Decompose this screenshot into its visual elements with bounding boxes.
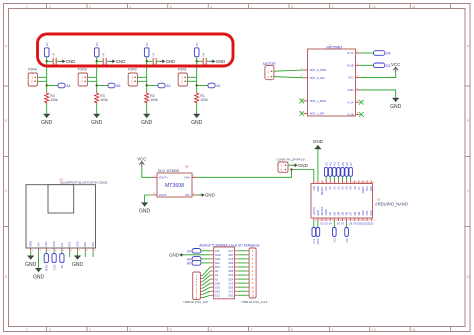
wire U3 to net label TXD (53, 251, 55, 253)
svg-text:A-1A: A-1A (348, 100, 354, 104)
svg-text:?: ? (152, 53, 155, 58)
ground at U4 VOUT- (139, 203, 151, 215)
svg-text:A7: A7 (349, 162, 353, 166)
svg-text:GND: GND (205, 193, 215, 198)
svg-text:MOT_R_PWM: MOT_R_PWM (310, 69, 326, 72)
resistor R1 100k (195, 92, 199, 104)
svg-text:VCC: VCC (137, 157, 146, 162)
ground at U1 (390, 98, 402, 110)
svg-text:16: 16 (372, 220, 374, 222)
wire 3V flag to node block 2 (96, 57, 98, 62)
svg-text:D13: D13 (369, 224, 374, 226)
wire capacitor to GND block 4 (207, 60, 211, 62)
wire node to capacitor C2 (97, 60, 103, 62)
svg-text:GND: GND (139, 209, 151, 215)
svg-text:D12: D12 (369, 210, 373, 215)
wire F2R1 pin 2 (187, 80, 196, 82)
ground flag GND at U4 VIN- (200, 193, 215, 198)
net label A6 (108, 83, 121, 88)
svg-text:1: 1 (315, 182, 316, 184)
svg-text:1: 1 (26, 328, 28, 332)
svg-text:GND: GND (313, 139, 324, 144)
wire to net label A3 (147, 85, 158, 87)
svg-text:3V3: 3V3 (365, 186, 369, 191)
svg-text:HDR-M-2.54_1x12: HDR-M-2.54_1x12 (242, 300, 268, 304)
wire J2 pin 4 to U5 (202, 279, 210, 285)
net label RXD below U3 (44, 254, 48, 271)
svg-text:3V: 3V (187, 249, 192, 253)
net flag 3V block 3 (144, 43, 149, 57)
svg-text:GND: GND (116, 59, 126, 64)
wire node to capacitor C3 (147, 60, 153, 62)
svg-text:D5: D5 (341, 211, 345, 215)
svg-text:D6: D6 (345, 211, 349, 215)
connector J1 CONN-TH_2P-P4.00 (277, 158, 305, 173)
wire U2 to net label RX0 (317, 221, 319, 228)
no-connect U1 left pin 10 (299, 111, 304, 116)
net label 5V below U3 (60, 254, 64, 269)
wire F2R2 pin 2 (137, 80, 146, 82)
svg-text:VCC: VCC (348, 76, 354, 80)
svg-text:SDA: SDA (215, 257, 221, 261)
wire J2 pin 1 to U5 (202, 267, 210, 276)
svg-text:1: 1 (26, 5, 28, 9)
capacitor C1 (C?) (52, 53, 56, 65)
wire U5 to J3 pin 5 (238, 266, 247, 268)
svg-text:4: 4 (130, 328, 132, 332)
svg-text:GND: GND (33, 274, 45, 280)
svg-text:MOD: MOD (29, 241, 33, 247)
svg-text:A1: A1 (332, 186, 336, 190)
net label A3 above U2 (333, 162, 337, 177)
wire junction to resistor R2 (146, 86, 148, 92)
wire to net label A2 (197, 85, 208, 87)
wire to net label A4 (47, 85, 58, 87)
wire MOTOR pin 1 to U1 (274, 70, 304, 71)
net flag 3V block 2 (94, 43, 99, 57)
svg-text:D9: D9 (357, 211, 361, 215)
wire 3V flag to node block 3 (146, 57, 148, 62)
svg-text:GND: GND (216, 59, 226, 64)
net label RX0 below U2 (316, 228, 320, 245)
junction block 3 top (146, 60, 148, 62)
svg-text:+5V: +5V (324, 186, 328, 191)
wire U5 to J3 pin 10 (238, 286, 247, 288)
svg-text:D6: D6 (386, 52, 391, 56)
resistor R3 100k (95, 92, 99, 104)
wire node to capacitor C4 (197, 60, 203, 62)
svg-text:VCC: VCC (391, 62, 400, 67)
wire U5 to J3 pin 9 (238, 282, 247, 284)
svg-text:D11: D11 (365, 210, 369, 215)
svg-text:GND: GND (348, 88, 354, 92)
svg-text:A2: A2 (336, 186, 340, 190)
svg-text:8: 8 (291, 328, 293, 332)
svg-text:A4: A4 (66, 84, 70, 88)
svg-text:3V0: 3V0 (91, 242, 95, 247)
svg-text:R2: R2 (150, 94, 154, 98)
svg-text:SD7: SD7 (228, 253, 234, 257)
svg-text:5: 5 (170, 5, 172, 9)
wire U2 to net label TX1 (313, 221, 315, 228)
motor driver U1 HG7881 (300, 43, 360, 116)
svg-text:A6: A6 (353, 186, 357, 190)
wire A6 flag to U2 (346, 176, 348, 180)
svg-text:GND: GND (166, 59, 176, 64)
svg-text:D2: D2 (328, 211, 332, 215)
svg-text:27: 27 (327, 220, 329, 222)
svg-text:GND: GND (66, 59, 76, 64)
svg-text:U4: U4 (185, 165, 189, 169)
svg-text:RESET: RESET (320, 186, 324, 195)
svg-text:9: 9 (332, 5, 334, 9)
svg-text:3V: 3V (45, 43, 49, 47)
svg-text:23: 23 (344, 220, 346, 222)
wire stub U3 pin 9 (92, 251, 94, 257)
svg-text:13: 13 (364, 182, 366, 184)
svg-text:VIN: VIN (215, 249, 219, 253)
svg-text:100k: 100k (50, 98, 58, 102)
wire A4 flag to U2 (337, 176, 339, 180)
svg-text:SC2: SC2 (228, 289, 234, 293)
svg-text:11: 11 (356, 182, 358, 184)
wire U4 VIN- to ground flag (197, 194, 201, 196)
svg-text:A1: A1 (215, 273, 219, 277)
power flag VCC at U4 MT3608 (137, 157, 146, 167)
svg-text:SC0: SC0 (215, 285, 221, 289)
svg-text:5: 5 (170, 328, 172, 332)
net label A4 (58, 83, 71, 88)
svg-text:19: 19 (360, 220, 362, 222)
wire 3V flag to U5 VIN (201, 250, 210, 252)
svg-text:A4: A4 (345, 186, 349, 190)
wire capacitor to GND block 3 (157, 60, 161, 62)
wire resistor R1 to ground (196, 104, 198, 115)
wire A3 flag to U2 (333, 176, 335, 180)
svg-text:D4: D4 (336, 211, 340, 215)
wire U3 to net label 5V (61, 251, 63, 253)
svg-text:3V: 3V (195, 43, 199, 47)
svg-text:DLQ_MT3608: DLQ_MT3608 (158, 169, 179, 173)
svg-text:F2R4: F2R4 (28, 68, 37, 72)
svg-text:D7: D7 (349, 211, 353, 215)
wire F2R1 pin 1 (187, 76, 196, 78)
svg-text:AREF: AREF (361, 186, 365, 194)
svg-text:SD3: SD3 (228, 285, 234, 289)
wire ground to U5 GND (184, 254, 210, 256)
svg-text:VIN-: VIN- (185, 193, 191, 197)
boost converter U4 DLQ_MT3608 (153, 165, 197, 198)
wire resistor R3 to ground (96, 104, 98, 115)
svg-text:TXD: TXD (52, 264, 56, 271)
svg-text:A3: A3 (341, 186, 345, 190)
svg-text:SC5: SC5 (228, 265, 234, 269)
connector F2R2 (128, 68, 137, 86)
wire U1 B-1A to net flag (360, 52, 374, 54)
net label 3V at U5 VIN (187, 249, 201, 254)
wire U5 to J3 pin 3 (238, 258, 247, 260)
svg-text:100k: 100k (150, 98, 158, 102)
svg-text:A0: A0 (328, 186, 332, 190)
net label A6 above U2 (345, 162, 349, 177)
ground block 3 bottom (141, 114, 153, 126)
net label D6 (U1 B-1A) (373, 51, 390, 56)
svg-text:21: 21 (352, 220, 354, 222)
svg-text:A7: A7 (357, 186, 361, 190)
svg-text:3: 3 (89, 5, 91, 9)
wire A7 flag to U2 (350, 176, 352, 180)
svg-text:SC7: SC7 (228, 249, 234, 253)
net label A4 above U2 (337, 162, 341, 177)
microcontroller U2 ARDUINO_NANO (311, 181, 408, 222)
wire U5 to J3 pin 11 (238, 290, 247, 292)
net label D3 below U2 (333, 228, 337, 243)
wire U2 to net label D6 (346, 221, 348, 228)
svg-text:24: 24 (340, 220, 342, 222)
svg-text:11: 11 (412, 328, 416, 332)
svg-text:10: 10 (372, 328, 376, 332)
svg-text:GND: GND (316, 186, 320, 192)
wire U5 to J3 pin 2 (238, 254, 247, 256)
svg-text:GND: GND (324, 209, 328, 215)
wire resistor R4 to ground (46, 104, 48, 115)
svg-text:RXD: RXD (52, 241, 56, 247)
wire F2R2 pin 1 (137, 76, 146, 78)
capacitor C2 (C?) (102, 53, 106, 65)
wire stub U3 pin 6 (69, 251, 71, 257)
no-connect U1 right pin 5 (359, 100, 364, 105)
svg-text:3V: 3V (145, 43, 149, 47)
svg-text:D3: D3 (386, 64, 391, 68)
svg-text:SD6: SD6 (228, 261, 234, 265)
svg-text:17: 17 (368, 220, 370, 222)
svg-text:R3: R3 (100, 94, 104, 98)
svg-text:10: 10 (372, 5, 376, 9)
wire ground to nano GND pin (317, 149, 319, 181)
capacitor C4 (C?) (202, 53, 206, 65)
svg-text:GND: GND (25, 262, 37, 268)
svg-text:GND: GND (91, 120, 103, 126)
wire vertical net block 2 (96, 61, 98, 85)
svg-text:GND: GND (215, 253, 221, 257)
svg-text:B: B (5, 119, 7, 123)
wire junction to resistor R3 (96, 86, 98, 92)
wire U3 pin 2 to ground (38, 251, 40, 268)
wire J1 pin 1 to ground flag (288, 164, 294, 166)
svg-text:3V: 3V (95, 43, 99, 47)
svg-text:2: 2 (49, 5, 51, 9)
wire F2R4 pin 2 (37, 80, 46, 82)
svg-text:BLUEFRUIT BLUETOOTH C3625: BLUEFRUIT BLUETOOTH C3625 (61, 181, 108, 185)
svg-text:A2: A2 (215, 277, 219, 281)
svg-text:D3: D3 (332, 211, 336, 215)
wire to net label A6 (97, 85, 108, 87)
net label A2 above U2 (329, 162, 333, 177)
wire U5 to J3 pin 6 (238, 270, 247, 272)
net label D6 below U2 (345, 228, 349, 243)
wire J2 pin 3 to U5 (202, 275, 210, 282)
wire node to capacitor C1 (47, 60, 53, 62)
svg-text:20: 20 (356, 220, 358, 222)
net label A2 (208, 83, 221, 88)
svg-text:100k: 100k (200, 98, 208, 102)
svg-text:3: 3 (89, 328, 91, 332)
junction block 4 top (196, 60, 198, 62)
svg-text:2: 2 (49, 328, 51, 332)
connector F2R1 (178, 68, 187, 86)
svg-text:GND: GND (72, 262, 84, 268)
svg-text:2: 2 (319, 182, 320, 184)
ground flag GND block 3 top (160, 59, 175, 64)
svg-text:(RX): (RX) (316, 210, 320, 216)
svg-text:R1: R1 (200, 94, 204, 98)
svg-text:MT3608: MT3608 (165, 183, 184, 189)
svg-text:GND: GND (191, 120, 203, 126)
svg-text:F2R1: F2R1 (178, 68, 187, 72)
no-connect U1 right pin 6 (359, 112, 364, 117)
resistor R2 100k (145, 92, 149, 104)
svg-text:SD5: SD5 (228, 269, 234, 273)
wire U1 B-1B to net flag (360, 64, 374, 66)
svg-text:GND: GND (41, 120, 53, 126)
wire U5 to J3 pin 1 (238, 250, 247, 252)
ground block 4 bottom (191, 114, 203, 126)
svg-text:D10: D10 (361, 210, 365, 215)
svg-text:A0: A0 (215, 269, 219, 273)
svg-text:MOT_L_DIR: MOT_L_DIR (310, 113, 324, 116)
svg-text:SD1: SD1 (215, 289, 221, 293)
ground flag GND block 1 top (60, 59, 75, 64)
svg-text:VIN+: VIN+ (184, 176, 191, 180)
svg-text:6: 6 (335, 182, 336, 184)
svg-text:SCL: SCL (215, 261, 221, 265)
svg-text:6: 6 (210, 5, 212, 9)
wire U3 pin 7 to ground (77, 251, 79, 256)
wire F2R3 pin 1 (87, 76, 96, 78)
svg-text:R4: R4 (50, 94, 54, 98)
ground flag above U2 (points up) (313, 139, 324, 149)
wire U3 to net label RXD (45, 251, 47, 253)
svg-text:B-1B: B-1B (348, 63, 354, 67)
svg-text:3: 3 (323, 182, 324, 184)
svg-text:RESET: RESET (320, 206, 324, 215)
net flag 3V block 4 (194, 43, 199, 57)
wire U5 to J3 pin 4 (238, 262, 247, 264)
wire J2 pin 5 to U5 (202, 283, 210, 288)
net label A3 (158, 83, 171, 88)
net label A5 above U2 (341, 162, 345, 177)
wire A5 flag to U5 SCL (201, 262, 210, 264)
net label A5 at U5 SCL (187, 261, 201, 266)
svg-text:A2: A2 (216, 84, 220, 88)
connector MOTOR (263, 62, 276, 80)
connector F2R3 (78, 68, 87, 86)
ground at U3 pin 7 (72, 256, 84, 268)
svg-text:28: 28 (323, 220, 325, 222)
svg-text:D3: D3 (333, 238, 337, 242)
svg-text:SD0: SD0 (215, 281, 221, 285)
svg-text:11: 11 (412, 5, 416, 9)
wire vertical net block 3 (146, 61, 148, 85)
svg-text:15: 15 (372, 182, 374, 184)
svg-text:A5: A5 (187, 261, 191, 265)
svg-text:6: 6 (210, 328, 212, 332)
svg-text:29: 29 (319, 220, 321, 222)
svg-text:?: ? (52, 53, 55, 58)
wire VCC to U4 VOUT+ (142, 167, 153, 178)
svg-text:SD2: SD2 (228, 293, 234, 297)
svg-text:RXD: RXD (45, 264, 49, 271)
svg-text:5: 5 (331, 182, 332, 184)
svg-text:+5(TX): +5(TX) (312, 207, 316, 215)
wire U4 VIN+ to battery connector node (197, 170, 292, 178)
svg-text:A5: A5 (349, 186, 353, 190)
svg-text:30: 30 (315, 220, 317, 222)
wire J2 pin 6 to U5 (202, 287, 210, 291)
svg-text:?: ? (102, 53, 105, 58)
ground block 2 bottom (91, 114, 103, 126)
header J2 HDR-M-2.54_1x8 (184, 272, 208, 304)
svg-text:D6: D6 (345, 238, 349, 242)
svg-text:D8: D8 (353, 211, 357, 215)
wire stub U3 pin 8 (84, 251, 86, 257)
resistor R4 100k (45, 92, 49, 104)
ground flag GND at U5 (169, 252, 184, 257)
svg-text:GND: GND (141, 120, 153, 126)
capacitor C3 (C?) (152, 53, 156, 65)
wire A4 flag to U5 SDA (201, 258, 210, 260)
svg-text:F2R3: F2R3 (78, 68, 87, 72)
svg-text:F2R2: F2R2 (128, 68, 137, 72)
wire J2 pin 8 to U5 (202, 295, 210, 297)
wire J2 pin 7 to U5 (202, 291, 210, 294)
svg-text:10: 10 (352, 182, 354, 184)
wire MOTOR pin 2 to U1 (274, 77, 304, 78)
svg-text:GND: GND (390, 104, 402, 110)
svg-text:4: 4 (327, 182, 328, 184)
ground flag GND at J1 (293, 163, 308, 168)
svg-text:MOT_R_DIR: MOT_R_DIR (310, 77, 325, 80)
wire 3V flag to node block 4 (196, 57, 198, 62)
svg-text:TXD: TXD (44, 241, 48, 246)
svg-text:RX0: RX0 (316, 238, 320, 244)
wire U4 VOUT- to ground (145, 195, 153, 203)
ground flag GND block 2 top (110, 59, 125, 64)
svg-text:7: 7 (251, 5, 253, 9)
junction block 4 divider node (196, 84, 198, 86)
svg-text:25: 25 (335, 220, 337, 222)
wire A2 flag to U2 (329, 176, 331, 180)
wire U3 pin 1 to ground (30, 251, 32, 256)
power flag VCC at U1 (391, 62, 400, 72)
svg-text:4: 4 (130, 5, 132, 9)
net label D3 (U1 B-1B) (373, 63, 390, 68)
svg-text:ARDUINO_NANO: ARDUINO_NANO (375, 201, 408, 206)
svg-text:VOUT+: VOUT+ (159, 176, 169, 180)
svg-text:KEY: KEY (83, 241, 87, 246)
pin value labels under U2 bottom pins (321, 224, 374, 226)
svg-text:SC4: SC4 (228, 273, 234, 277)
ground at U3 pin 2 (33, 268, 45, 280)
wire U5 to J3 pin 8 (238, 278, 247, 280)
junction J1 pin 2 node (290, 168, 292, 170)
svg-text:22: 22 (348, 220, 350, 222)
net label TX1 below U2 (312, 228, 316, 245)
wire J1 node to nano VIN (292, 170, 314, 181)
svg-text:RST: RST (215, 265, 221, 269)
svg-text:HDR-M-2.54_1x8: HDR-M-2.54_1x8 (184, 300, 208, 304)
wire U1 VCC (360, 72, 396, 77)
